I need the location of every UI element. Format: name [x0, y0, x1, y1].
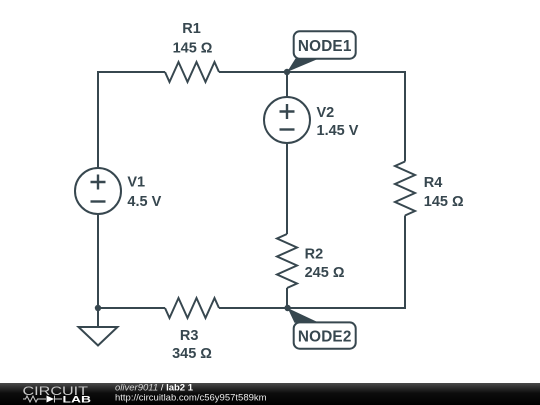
svg-text:http://circuitlab.com/c56y957t: http://circuitlab.com/c56y957t589km	[115, 393, 267, 404]
wire: R4 bottom to bottom-right corner to NODE2	[288, 216, 405, 309]
svg-text:V2: V2	[317, 105, 335, 121]
wire: V2 bottom to R2 top	[286, 143, 288, 234]
wire: top-left corner (left rail top to R1 left lead)	[98, 72, 165, 168]
label R3 value 345 Ω	[172, 328, 212, 362]
resistor R2	[277, 234, 297, 288]
svg-text:NODE2: NODE2	[298, 329, 352, 346]
voltage source V2	[264, 97, 310, 143]
svg-text:R1: R1	[182, 21, 201, 37]
callout NODE2	[288, 308, 356, 349]
label V2 value 1.45 V	[317, 105, 359, 139]
wire: NODE2 to R3 right lead	[219, 307, 288, 309]
svg-text:145 Ω: 145 Ω	[173, 40, 213, 56]
node NODE1 junction dot	[284, 69, 290, 75]
footer bar	[0, 383, 540, 405]
svg-text:R2: R2	[305, 246, 324, 262]
wire: R3 left lead to bottom-left corner up to V1 bottom	[98, 214, 165, 308]
label R4 value 145 Ω	[424, 175, 464, 210]
CircuitLab logo	[23, 386, 92, 405]
svg-text:R4: R4	[424, 175, 443, 191]
svg-text:LAB: LAB	[63, 395, 92, 405]
wire: R2 bottom to NODE2	[286, 288, 288, 308]
voltage source V1	[75, 168, 121, 214]
label R1 value 145 Ω	[173, 21, 213, 56]
label V1 value 4.5 V	[127, 175, 161, 210]
svg-text:NODE1: NODE1	[298, 38, 352, 55]
svg-text:345 Ω: 345 Ω	[172, 346, 212, 362]
resistor R3	[165, 298, 219, 318]
junction dot: ground tap at bottom-left	[95, 305, 101, 311]
resistor R4	[395, 162, 415, 216]
svg-text:1.45 V: 1.45 V	[317, 123, 359, 139]
callout NODE1	[287, 31, 356, 72]
svg-text:145 Ω: 145 Ω	[424, 194, 464, 210]
svg-text:245 Ω: 245 Ω	[305, 265, 345, 281]
wire: NODE1 down to V2 top	[286, 72, 288, 97]
wire: NODE1 to top-right corner down to R4 top	[287, 72, 405, 162]
node NODE2 junction dot	[284, 305, 290, 311]
svg-text:R3: R3	[180, 328, 199, 344]
wire: R1 right lead to NODE1	[219, 71, 287, 73]
svg-text:4.5 V: 4.5 V	[127, 194, 161, 210]
svg-text:V1: V1	[127, 175, 145, 191]
label R2 value 245 Ω	[305, 246, 345, 281]
ground	[79, 308, 118, 346]
resistor R1	[165, 62, 219, 82]
